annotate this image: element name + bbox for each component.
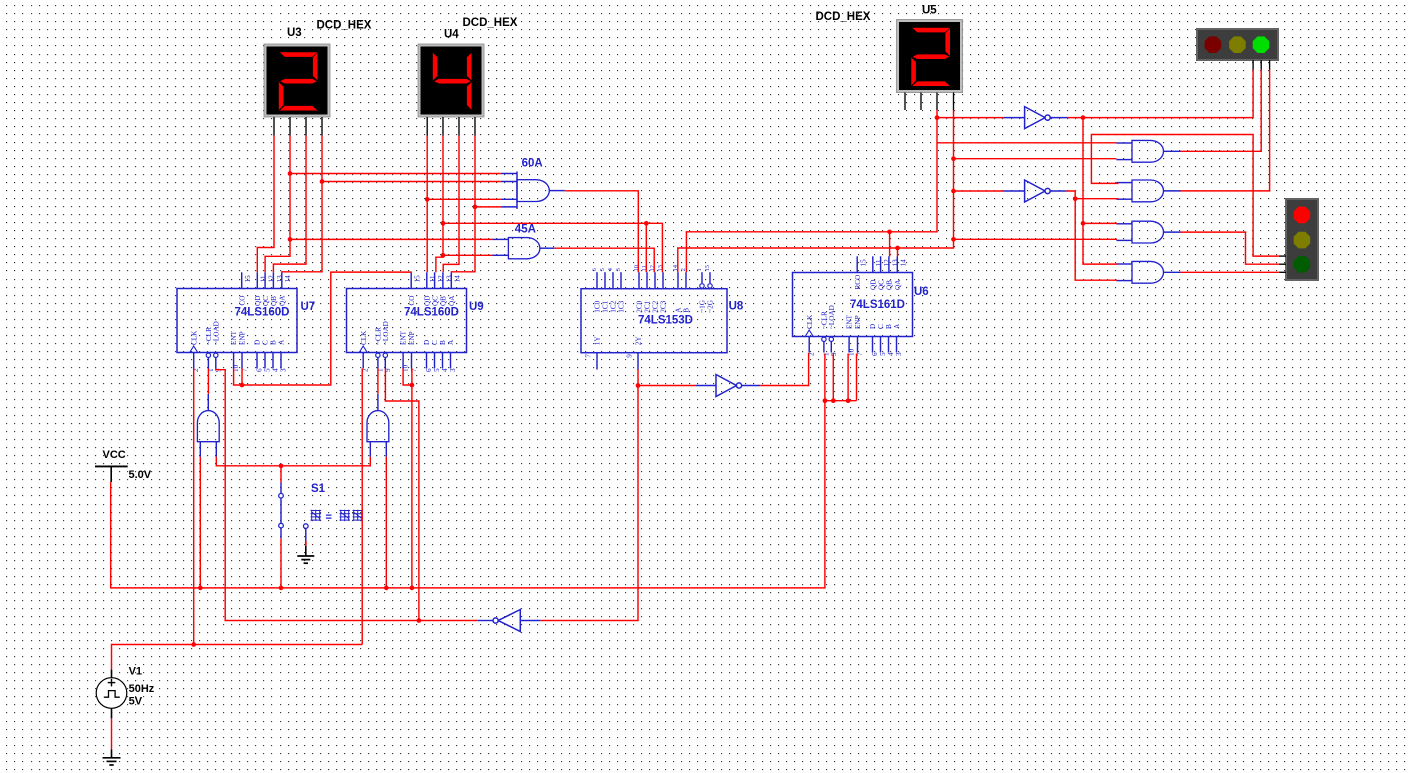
label DCD_HEX (U4) xyxy=(463,17,518,29)
wire branch to U8 2C1 xyxy=(645,223,647,272)
wire U4 pin1 to U9 QD xyxy=(426,136,428,273)
wire U8 2Y to inverter U17 input xyxy=(541,369,638,620)
wire VCC rail xyxy=(111,354,825,588)
AND gate U12 (2-input) xyxy=(1116,221,1180,243)
svg-text:2C3: 2C3 xyxy=(660,300,668,312)
wire U7 CLK to clock rail xyxy=(193,369,195,645)
wire S1 top xyxy=(280,466,282,483)
svg-text:45A: 45A xyxy=(515,224,536,236)
svg-text:U3: U3 xyxy=(287,27,302,39)
svg-text:QC: QC xyxy=(262,296,270,306)
svg-text:QA: QA xyxy=(448,295,456,306)
svg-text:1C2: 1C2 xyxy=(610,300,618,312)
svg-text:14: 14 xyxy=(284,275,292,283)
wire U8 pin A to U6 QA net xyxy=(678,248,954,272)
svg-text:12: 12 xyxy=(437,275,445,283)
wire gate U11 in1 chain to X2 red xyxy=(1091,135,1278,257)
svg-text:1C0: 1C0 xyxy=(594,300,602,312)
svg-text:50Hz: 50Hz xyxy=(129,683,155,695)
inverter U15 (mid right) xyxy=(1003,180,1066,202)
svg-text:DCD_HEX: DCD_HEX xyxy=(317,20,372,32)
svg-text:D: D xyxy=(869,324,877,329)
svg-text:U7: U7 xyxy=(301,301,316,313)
svg-text:CLK: CLK xyxy=(360,330,368,345)
svg-text:QA: QA xyxy=(279,295,287,306)
ground (S1 common) xyxy=(297,541,314,563)
wire U6 QA stub xyxy=(897,248,899,256)
svg-text:B: B xyxy=(683,308,691,313)
wire gate U10 output to X1 yellow xyxy=(1181,70,1262,152)
7-segment display U3 (shows 2) xyxy=(264,44,330,117)
wire U9 CLK to clock rail xyxy=(361,369,363,645)
label U5 xyxy=(922,5,937,17)
svg-text:~LOAD: ~LOAD xyxy=(212,321,220,345)
svg-text:B: B xyxy=(270,340,278,345)
svg-text:5V: 5V xyxy=(129,696,143,708)
AND gate A2 (below U9) xyxy=(367,394,389,457)
svg-text:A: A xyxy=(447,339,455,345)
wire U4 pin2 to U9 QC xyxy=(436,136,443,273)
traffic light X2 (vertical) xyxy=(1286,199,1318,280)
svg-text:12: 12 xyxy=(649,265,656,271)
svg-text:60A: 60A xyxy=(522,158,543,170)
svg-text:74LS161D: 74LS161D xyxy=(850,299,905,311)
svg-text:QD: QD xyxy=(424,296,432,306)
svg-text:QD: QD xyxy=(254,296,262,306)
wire U5 pin3 tap to inverter U14 xyxy=(937,117,1003,119)
svg-text:13: 13 xyxy=(891,259,899,267)
svg-text:5: 5 xyxy=(264,368,272,372)
AND gate U11 (2-input) xyxy=(1116,180,1180,202)
svg-text:U8: U8 xyxy=(729,301,744,313)
wire 60A input4 from U4 pin4 xyxy=(475,206,501,208)
svg-text:VCC: VCC xyxy=(103,449,126,461)
svg-text:~2G: ~2G xyxy=(707,300,715,313)
wire U3 pin2 to U7 QC xyxy=(265,136,290,273)
wire U8 2Y tap to inverter U16 xyxy=(638,385,695,387)
label 45A xyxy=(515,224,536,236)
svg-text:4: 4 xyxy=(272,368,280,372)
wire 60A output to U8 2C0 xyxy=(565,191,639,272)
svg-text:1C3: 1C3 xyxy=(618,300,626,312)
AND gate 60A (4-input) xyxy=(501,172,565,209)
svg-text:U5: U5 xyxy=(922,5,937,17)
svg-text:11: 11 xyxy=(260,275,268,282)
wire U6 control pins tie xyxy=(825,400,857,402)
svg-text:3: 3 xyxy=(895,352,903,356)
svg-text:15: 15 xyxy=(414,275,422,283)
svg-text:6: 6 xyxy=(871,352,879,356)
svg-text:1: 1 xyxy=(696,268,703,271)
wire U7 CLR to gate A1 output xyxy=(207,369,209,394)
wire U6 LOAD stub xyxy=(832,354,834,401)
ground (below V1) xyxy=(103,750,121,766)
svg-text:6: 6 xyxy=(591,268,598,271)
svg-text:1Y: 1Y xyxy=(594,336,602,346)
svg-text:C: C xyxy=(262,340,270,345)
wire 60A input3 from U4 pin1 xyxy=(427,198,501,200)
wire inverter U14 branch xyxy=(1083,118,1117,265)
wire inverter U14 output to X1 red xyxy=(1068,70,1254,118)
svg-text:CO: CO xyxy=(238,296,246,306)
wire gate A1/A2 inputs tie xyxy=(216,457,370,466)
svg-text:4: 4 xyxy=(441,368,449,372)
switch S1 (SPDT, key = space) xyxy=(279,483,308,542)
wire U6 ENP stub xyxy=(856,354,858,401)
svg-text:ENP: ENP xyxy=(408,331,416,345)
wire 60A input1 from U3 pin2 xyxy=(290,173,501,175)
AND gate U10 (2-input) xyxy=(1116,140,1180,162)
svg-text:DCD_HEX: DCD_HEX xyxy=(816,11,871,23)
wire 45A input1 from U3 pin2 xyxy=(290,238,493,240)
svg-text:74LS160D: 74LS160D xyxy=(235,306,290,318)
svg-text:ENP: ENP xyxy=(854,315,862,329)
svg-text:4: 4 xyxy=(607,268,614,271)
svg-text:ENP: ENP xyxy=(239,331,247,345)
svg-text:2C1: 2C1 xyxy=(644,300,652,312)
svg-text:CLK: CLK xyxy=(806,314,814,329)
traffic light X1 pins xyxy=(1253,60,1270,70)
U3 pins xyxy=(274,117,322,136)
svg-text:11: 11 xyxy=(875,259,883,266)
svg-text:QB: QB xyxy=(886,280,894,290)
svg-text:14: 14 xyxy=(454,275,462,283)
svg-text:12: 12 xyxy=(883,259,891,267)
inverter U16 (U8 to U6 clock) xyxy=(695,375,760,397)
svg-text:D: D xyxy=(423,340,431,345)
svg-text:C: C xyxy=(431,340,439,345)
wire U4 pin3 to U9 QB xyxy=(443,136,459,273)
AND gate A1 (below U7) xyxy=(197,394,219,457)
svg-text:~LOAD: ~LOAD xyxy=(382,321,390,345)
svg-text:5.0V: 5.0V xyxy=(129,469,152,481)
IC U6 74LS161D xyxy=(793,256,929,356)
wire gate A2 input right to VCC rail xyxy=(385,457,387,588)
wire U3 pin3 to U7 QB xyxy=(273,136,306,273)
7-segment display U5 (shows 2) xyxy=(897,20,963,93)
svg-text:15: 15 xyxy=(244,275,252,283)
traffic light X1 (horizontal) xyxy=(1197,29,1278,60)
wire U6 ENT stub xyxy=(847,354,849,401)
wire U5 pin4 tap to gate U12 in2 xyxy=(954,238,1118,240)
wire gate A1 input left to VCC rail xyxy=(199,457,201,588)
wire V1 to ground xyxy=(111,718,113,749)
IC U9 74LS160D (tens counter) xyxy=(347,272,484,372)
wire inverter U16 output to U6 CLK xyxy=(760,353,808,386)
svg-text:13: 13 xyxy=(276,275,284,283)
wire U9 RCO to U7 ENT/ENP xyxy=(242,272,411,385)
label DCD_HEX (U3) xyxy=(317,20,372,32)
svg-text:3: 3 xyxy=(615,268,622,271)
wire gate U13 output to X2 green xyxy=(1181,271,1279,273)
svg-text:U6: U6 xyxy=(914,286,929,298)
svg-text:D: D xyxy=(254,340,262,345)
svg-text:QC: QC xyxy=(431,296,439,306)
svg-text:S1: S1 xyxy=(311,483,326,495)
wire U4 pin4 to U9 QA xyxy=(451,136,475,273)
wire U3 pin1 to U7 QD xyxy=(257,136,274,273)
svg-text:6: 6 xyxy=(256,368,264,372)
wire branch to gate U12 in1 xyxy=(1083,222,1117,224)
svg-text:U4: U4 xyxy=(444,29,459,41)
svg-text:3: 3 xyxy=(280,368,288,372)
svg-text:9: 9 xyxy=(626,354,634,358)
AND gate 45A (2-input) xyxy=(493,238,555,259)
svg-text:3: 3 xyxy=(449,368,457,372)
AND gate U13 (2-input) xyxy=(1116,261,1180,283)
wire U7 ENT stub xyxy=(234,369,242,386)
svg-text:A: A xyxy=(278,339,286,345)
svg-text:74LS160D: 74LS160D xyxy=(404,306,459,318)
wire clock rail from V1 xyxy=(112,645,363,670)
wire U9 CLR to gate A2 output xyxy=(377,369,379,394)
label S1 xyxy=(311,483,326,495)
wire U3 pin4 to U7 QA xyxy=(282,136,322,273)
svg-text:5: 5 xyxy=(879,352,887,356)
svg-text:QA: QA xyxy=(894,279,902,290)
svg-text:U9: U9 xyxy=(469,301,484,313)
wire S1 bottom to VCC rail xyxy=(280,538,282,588)
VCC power symbol xyxy=(95,449,152,482)
wire U7 ENP stub xyxy=(241,369,243,386)
svg-text:2Y: 2Y xyxy=(635,336,643,346)
wire U9 LOAD to inverter U17 net xyxy=(385,369,419,621)
svg-text:4: 4 xyxy=(887,352,895,356)
wire U5 pin4 tap to inverter U15 xyxy=(954,190,1004,192)
svg-text:CO: CO xyxy=(408,296,416,306)
wire U5 pin3 vertical to U8 B xyxy=(686,110,937,272)
svg-text:5: 5 xyxy=(599,268,606,271)
svg-text:~1G: ~1G xyxy=(699,300,707,313)
svg-text:~LOAD: ~LOAD xyxy=(828,305,836,329)
svg-text:13: 13 xyxy=(445,275,453,283)
U4 pins xyxy=(427,117,475,136)
IC U7 74LS160D (units counter) xyxy=(177,272,315,372)
wire U9 ENT stub xyxy=(403,369,412,386)
label key=space (Chinese) xyxy=(311,510,364,524)
label DCD_HEX (U5) xyxy=(816,11,871,23)
svg-text:A: A xyxy=(675,307,683,313)
clock source V1 50Hz 5V xyxy=(96,666,155,719)
svg-text:C: C xyxy=(877,324,885,329)
svg-text:ENT: ENT xyxy=(400,330,408,345)
wire 60A input2 from U3 pin4 xyxy=(322,181,501,183)
svg-text:5: 5 xyxy=(433,368,441,372)
wire U4 pin2 net to U8 2C3 xyxy=(443,223,662,272)
wire gate U11 output to X1 green xyxy=(1181,70,1270,191)
svg-text:B: B xyxy=(885,324,893,329)
svg-text:QB: QB xyxy=(440,296,448,306)
svg-text:RCO: RCO xyxy=(854,275,862,290)
svg-text:6: 6 xyxy=(425,368,433,372)
svg-text:2C0: 2C0 xyxy=(636,300,644,312)
svg-text:B: B xyxy=(439,340,447,345)
wire U7 LOAD to inverter U17 xyxy=(216,369,478,621)
wire 45A output to U8 2C2 xyxy=(555,248,655,272)
svg-text:CLK: CLK xyxy=(190,330,198,345)
7-segment display U4 (shows 4) xyxy=(418,44,484,117)
svg-text:14: 14 xyxy=(900,259,908,267)
svg-text:A: A xyxy=(893,323,901,329)
wire 45A input2 from U4 pin2 xyxy=(443,254,493,256)
inverter U17 (pointing left, bottom) xyxy=(478,610,541,632)
label U3 xyxy=(287,27,302,39)
svg-text:V1: V1 xyxy=(129,666,142,678)
wire U5 pin4 vertical xyxy=(953,110,955,248)
svg-text:=: = xyxy=(326,512,332,524)
svg-text:15: 15 xyxy=(860,259,868,267)
label U4 xyxy=(444,29,459,41)
svg-text:2C2: 2C2 xyxy=(652,300,660,312)
wire gate U12 output to X2 yellow xyxy=(1181,232,1279,264)
svg-text:11: 11 xyxy=(429,275,437,282)
traffic light X2 pins xyxy=(1279,256,1286,272)
label 60A xyxy=(522,158,543,170)
wire inverter U15 output branch xyxy=(1066,191,1117,280)
IC U8 74LS153D (multiplexer) xyxy=(581,265,744,369)
svg-text:DCD_HEX: DCD_HEX xyxy=(463,17,518,29)
svg-text:74LS153D: 74LS153D xyxy=(638,315,693,327)
svg-text:12: 12 xyxy=(268,275,276,283)
svg-text:7: 7 xyxy=(585,354,593,358)
wire junctions xyxy=(191,115,1085,647)
svg-text:QC: QC xyxy=(877,280,885,290)
wire branch to gate U11 in2 xyxy=(1075,198,1118,200)
svg-text:15: 15 xyxy=(704,265,711,271)
wire U6 QB stub xyxy=(889,232,891,257)
wire U5 pin3 tap to gate U10 in1 xyxy=(937,142,1116,144)
svg-text:ENT: ENT xyxy=(846,314,854,329)
wire U5 pin4 tap to gate U10 in2 xyxy=(954,158,1117,160)
inverter U14 (top right) xyxy=(1003,107,1067,129)
U5 pins xyxy=(905,93,954,111)
svg-text:ENT: ENT xyxy=(230,330,238,345)
svg-text:1C1: 1C1 xyxy=(602,300,610,312)
wire U9 ENP to VCC rail xyxy=(411,369,413,588)
svg-text:QD: QD xyxy=(870,280,878,290)
svg-text:QB: QB xyxy=(270,296,278,306)
